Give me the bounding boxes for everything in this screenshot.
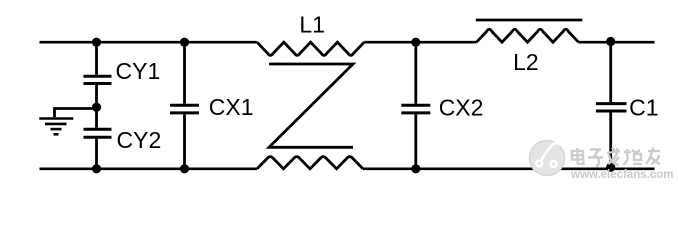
wire bottom rail left segment bbox=[40, 167, 258, 170]
inductor L1 bottom winding bbox=[257, 157, 363, 169]
wire CY2 to bottom rail bbox=[95, 139, 98, 169]
watermark logo circle (elecfans) bbox=[530, 141, 565, 176]
node junction top rail / CX1 bbox=[180, 38, 189, 47]
wire top rail right segment bbox=[579, 41, 655, 44]
wire from top rail to CY1 bbox=[95, 42, 98, 75]
wire C1 to bottom rail bbox=[609, 113, 612, 169]
wire top rail left segment (input L) bbox=[40, 41, 258, 44]
capacitor C1 bbox=[596, 104, 627, 111]
node junction bottom rail / CX2 bbox=[411, 164, 420, 173]
node junction top rail / CY branch bbox=[92, 38, 101, 47]
svg-text:CX1: CX1 bbox=[209, 94, 254, 120]
ground bbox=[39, 119, 73, 135]
L1 common-mode choke core (Z symbol) bbox=[269, 64, 353, 147]
inductor L2 winding bbox=[477, 29, 579, 42]
wire from top rail to CX2 bbox=[414, 42, 417, 104]
svg-text:CY1: CY1 bbox=[116, 58, 161, 84]
wire CX2 to bottom rail bbox=[414, 114, 417, 168]
svg-text:CX2: CX2 bbox=[439, 94, 484, 120]
capacitor CY1 bbox=[84, 76, 112, 83]
svg-text:CY2: CY2 bbox=[117, 127, 162, 153]
node junction bottom rail / C1 bbox=[606, 163, 615, 172]
wire from top rail to CX1 bbox=[183, 42, 186, 104]
capacitor CY2 bbox=[84, 129, 112, 137]
wire CY1 to CY2 (through mid junction) bbox=[95, 85, 98, 128]
capacitor CX1 bbox=[170, 105, 199, 113]
svg-text:L2: L2 bbox=[513, 49, 539, 75]
svg-text:www.elecfans.com: www.elecfans.com bbox=[570, 169, 673, 181]
wire mid junction to ground bbox=[55, 109, 97, 118]
capacitor CX2 bbox=[401, 105, 430, 113]
node junction top rail / C1 bbox=[606, 37, 615, 46]
node junction CY1-CY2 / ground tap bbox=[92, 103, 101, 112]
inductor L2 core bar bbox=[476, 19, 583, 22]
node junction top rail / CX2 bbox=[411, 38, 420, 47]
node junction bottom rail / CY2 bbox=[92, 164, 101, 173]
node junction bottom rail / CX1 bbox=[180, 164, 189, 173]
wire CX1 to bottom rail bbox=[183, 114, 186, 168]
wire top rail middle segment bbox=[364, 41, 476, 44]
svg-text:C1: C1 bbox=[629, 94, 658, 120]
inductor L1 top winding bbox=[257, 42, 364, 55]
wire from top rail to C1 bbox=[609, 42, 612, 102]
watermark text 电子发烧友 (approximated strokes) bbox=[572, 148, 660, 167]
wire bottom rail right segment bbox=[363, 167, 655, 170]
svg-text:L1: L1 bbox=[299, 12, 325, 38]
